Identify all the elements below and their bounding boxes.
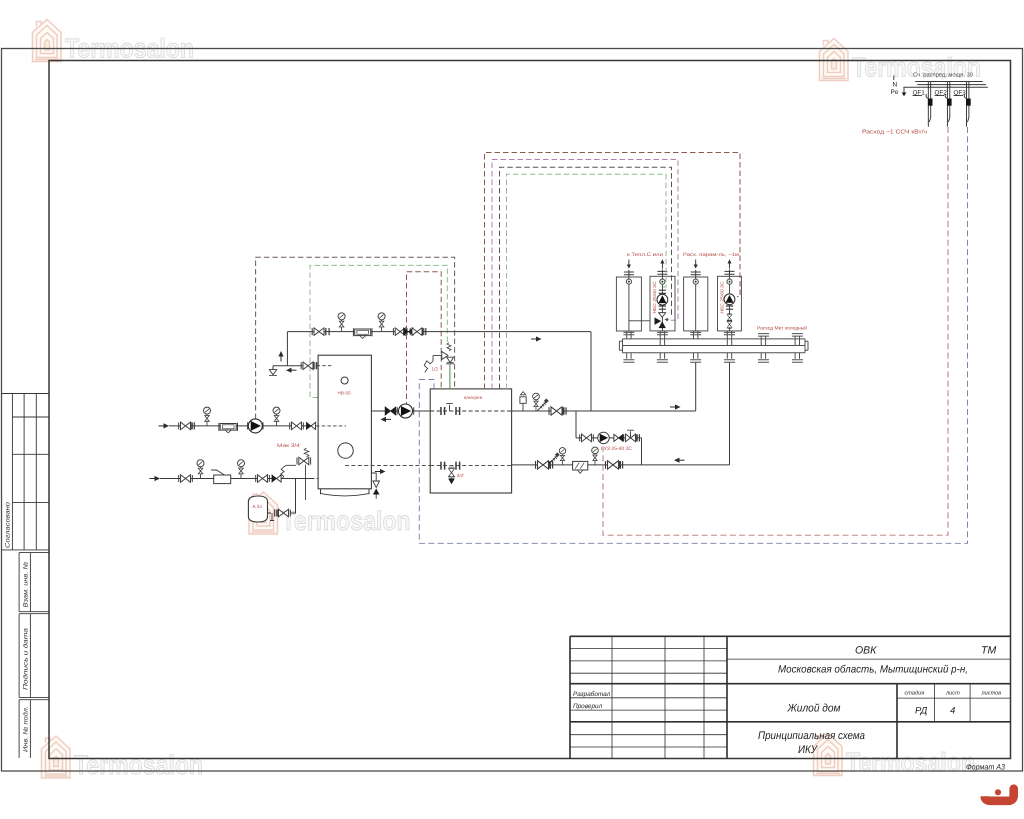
title block texts xyxy=(573,645,1006,772)
flange xyxy=(456,407,460,415)
left margin box inv xyxy=(19,700,49,758)
svg-text:НВ-50: НВ-50 xyxy=(338,391,351,396)
svg-text:ТМ: ТМ xyxy=(981,645,997,657)
svg-text:НБС 25/60 3С: НБС 25/60 3С xyxy=(652,282,657,314)
expansion tank EB1 xyxy=(248,496,267,522)
pump P2 xyxy=(598,432,609,443)
union xyxy=(659,290,666,293)
bus L xyxy=(917,84,986,86)
valve xyxy=(536,461,551,469)
control wire: QF3 blue dashed to tank sensor xyxy=(419,127,967,543)
wire dashed into boiler xyxy=(317,365,334,367)
svg-text:Взам. инв. №: Взам. инв. № xyxy=(23,561,30,607)
flow arrow middle run xyxy=(159,423,170,428)
flange xyxy=(441,407,445,415)
gauge MN5 xyxy=(197,460,204,479)
svg-text:ИКУ: ИКУ xyxy=(798,744,818,756)
valve xyxy=(393,328,407,336)
valve xyxy=(580,434,594,442)
valve xyxy=(312,328,326,336)
pump N1 xyxy=(248,422,263,429)
flange xyxy=(441,462,445,470)
watermark middle xyxy=(249,492,411,536)
valve xyxy=(606,461,621,469)
svg-text:в/нагрев: в/нагрев xyxy=(464,395,483,400)
safety valve SV1 xyxy=(281,465,296,478)
module arrow up xyxy=(661,263,663,269)
module arrow down xyxy=(695,260,697,266)
wire top run xyxy=(287,331,591,333)
valve xyxy=(256,475,270,483)
svg-text:Подпись и дата: Подпись и дата xyxy=(23,627,30,690)
wire module1 tap xyxy=(629,320,654,322)
title block xyxy=(570,636,1011,758)
check valve xyxy=(404,328,414,335)
svg-text:3/4': 3/4' xyxy=(457,473,464,478)
svg-text:1/2: 1/2 xyxy=(432,367,439,372)
gauge MN7 xyxy=(533,393,540,411)
water meter xyxy=(353,328,372,338)
thermometer xyxy=(538,398,549,410)
valve xyxy=(179,475,193,483)
capillary tube xyxy=(433,356,442,361)
gauge MN6 xyxy=(238,460,245,479)
flow arrow left xyxy=(286,368,297,373)
drain funnel xyxy=(272,366,274,370)
flow arrow left xyxy=(381,417,392,422)
svg-text:НБС 25/60 3С: НБС 25/60 3С xyxy=(719,282,724,314)
flange xyxy=(456,462,460,470)
N riser wire xyxy=(893,76,895,81)
thermometer xyxy=(549,452,560,464)
svg-text:Согласовано: Согласовано xyxy=(5,501,12,548)
wire riser to funnel line xyxy=(286,332,288,366)
watermark bottom-right xyxy=(814,734,976,778)
pressure regulator xyxy=(214,475,231,484)
gauge MN3 xyxy=(204,407,211,426)
valve xyxy=(179,422,193,430)
pump module 4 xyxy=(724,294,735,305)
svg-text:ГУЗ 25-40 3С: ГУЗ 25-40 3С xyxy=(601,446,633,452)
valve xyxy=(410,328,424,336)
control contour: boiler dark box xyxy=(256,257,455,419)
wire riser to top run xyxy=(590,332,592,411)
breaker QF3 xyxy=(964,82,971,127)
wire supply tank to manifold riser xyxy=(512,410,696,412)
3-way valve xyxy=(659,313,666,318)
flow arrow up xyxy=(278,351,283,362)
wire middle run xyxy=(169,425,316,427)
control contour: purple box xyxy=(492,160,678,390)
control contour: green box xyxy=(507,174,667,389)
union xyxy=(659,306,666,309)
boiler K1 xyxy=(318,355,371,489)
gauge MN2 xyxy=(378,313,385,332)
svg-text:Расход Мет холодный: Расход Мет холодный xyxy=(757,326,807,332)
svg-text:Московская область, Мытищински: Московская область, Мытищинский р-н, xyxy=(778,664,968,676)
water meter 2 xyxy=(219,423,238,433)
wire riser to expansion tank xyxy=(290,479,296,514)
check valve xyxy=(272,475,281,482)
module arrow down xyxy=(628,260,630,266)
control contour: boiler green box xyxy=(310,265,447,397)
gauge MN4 xyxy=(273,407,280,426)
svg-text:лист: лист xyxy=(945,691,960,697)
pump module 2 xyxy=(657,294,668,305)
boiler drain stub xyxy=(371,473,376,481)
check valve xyxy=(385,407,396,415)
gauge sensor xyxy=(592,447,599,465)
valve xyxy=(727,313,732,321)
control contour: inner red box (pump P1) xyxy=(407,272,442,408)
left margin rotated labels xyxy=(5,501,30,752)
svg-text:Расход ~1 ССЧ кВт/ч: Расход ~1 ССЧ кВт/ч xyxy=(862,129,927,136)
wire supply boiler to tank xyxy=(371,410,430,412)
gauge MN8 xyxy=(559,448,565,465)
globe valve xyxy=(624,434,638,442)
wire bottom run xyxy=(160,478,311,480)
control contour: outer red box (heating circuit) xyxy=(485,153,741,390)
control wire: QF2 red dashed to pump xyxy=(603,127,948,535)
valve xyxy=(290,422,304,430)
module 2 xyxy=(650,276,675,331)
flow arrow xyxy=(670,404,681,409)
check valve xyxy=(306,422,315,429)
svg-text:стадия: стадия xyxy=(905,690,925,697)
svg-text:Сч. распред. мощн. 30: Сч. распред. мощн. 30 xyxy=(913,72,974,79)
union xyxy=(726,306,733,309)
valve xyxy=(301,362,315,370)
left margin table soglasovano xyxy=(2,394,50,550)
module 3 xyxy=(684,277,708,331)
watermark top-right xyxy=(820,39,982,83)
tank top tee xyxy=(446,404,452,411)
bus PE xyxy=(903,86,987,88)
module 4 xyxy=(718,276,742,331)
svg-text:ОВК: ОВК xyxy=(855,645,877,657)
wire riser supply xyxy=(695,362,697,411)
svg-text:листов: листов xyxy=(981,691,1002,697)
left margin box vzam xyxy=(19,553,49,612)
svg-text:Проверил: Проверил xyxy=(573,703,603,710)
svg-text:Расх. парам-ль, ~1м: Расх. парам-ль, ~1м xyxy=(683,252,740,258)
svg-text:к Тепл.С или: к Тепл.С или xyxy=(627,252,663,258)
svg-text:Формат А3: Формат А3 xyxy=(966,763,1006,772)
DHW tank B1 xyxy=(430,389,511,493)
svg-text:А 3л: А 3л xyxy=(253,504,263,509)
flow arrow left xyxy=(674,458,685,463)
flow arrow bottom run xyxy=(150,476,161,481)
module arrow up xyxy=(729,263,731,269)
wire branch to pump P2 xyxy=(576,411,642,465)
gauge MN1 xyxy=(338,313,345,332)
valve xyxy=(727,320,732,328)
wire return dashed through tank xyxy=(430,465,511,467)
wire riser return xyxy=(729,362,731,465)
svg-text:N: N xyxy=(893,82,898,89)
svg-text:4: 4 xyxy=(950,706,955,717)
module 1 xyxy=(616,277,641,331)
svg-text:Разработал: Разработал xyxy=(573,691,611,698)
valve xyxy=(277,509,291,517)
tank relief valve xyxy=(449,365,451,389)
wire return tank to manifold riser xyxy=(512,464,730,466)
watermark bottom-left xyxy=(42,736,204,780)
control contour: dark box xyxy=(500,167,672,389)
breaker QF1 xyxy=(926,82,933,127)
manifold stubs xyxy=(623,331,803,362)
svg-text:Принципиальная схема: Принципиальная схема xyxy=(758,730,865,742)
valve xyxy=(549,407,564,415)
flow arrow xyxy=(531,336,542,341)
svg-text:Pe: Pe xyxy=(891,89,899,96)
bus N xyxy=(915,81,982,83)
air vent xyxy=(522,403,524,411)
svg-text:РД: РД xyxy=(915,706,928,717)
svg-text:Жилой дом: Жилой дом xyxy=(787,703,841,715)
wire return dashed boiler to tank xyxy=(345,465,430,467)
tank drain valve xyxy=(448,467,454,478)
orange logo xyxy=(985,789,1014,801)
wire supply dashed through tank xyxy=(430,410,511,412)
svg-text:Инв. № подл.: Инв. № подл. xyxy=(23,706,30,752)
svg-text:Мак 3/4': Мак 3/4' xyxy=(277,443,301,449)
check valve xyxy=(614,434,623,441)
filter F3 xyxy=(573,461,588,473)
watermark top-left xyxy=(33,20,195,64)
pump P1 xyxy=(397,407,413,414)
manifold xyxy=(619,339,808,353)
wire funnel line xyxy=(273,365,303,367)
ground arrow xyxy=(903,87,905,92)
left margin box podpis xyxy=(19,614,49,698)
breaker QF2 xyxy=(945,82,952,127)
